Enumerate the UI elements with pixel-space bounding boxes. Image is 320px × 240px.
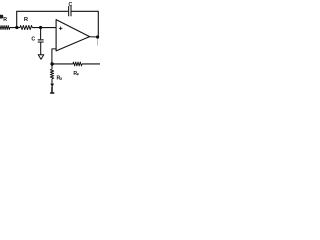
op-amp U1 bbox=[56, 20, 90, 51]
resistor RG bbox=[50, 69, 53, 79]
wire input resistor to node A bbox=[10, 27, 20, 29]
resistor R (input, clipped at left edge) bbox=[0, 26, 10, 30]
wire resistor RF to right edge bbox=[82, 63, 100, 65]
wire capacitor C to ground bbox=[40, 43, 42, 55]
ground arrowhead (filled) bbox=[50, 84, 54, 87]
svg-text:R: R bbox=[3, 17, 7, 23]
ground (open triangle, under C) bbox=[38, 55, 44, 60]
svg-text:R: R bbox=[24, 17, 29, 23]
wire output node down (faint stub) bbox=[97, 38, 99, 45]
resistor R (second) bbox=[20, 25, 32, 29]
capacitor C (feedback, top) bbox=[69, 6, 71, 16]
wire capacitor C to right rail down to output node bbox=[71, 11, 98, 37]
label: clipped glyph at left edge bbox=[0, 15, 3, 19]
wire resistor RG to ground arrow bbox=[51, 79, 53, 84]
wire node B to op-amp + input bbox=[32, 27, 56, 29]
svg-text:G: G bbox=[60, 77, 63, 81]
capacitor C (shunt, left) bbox=[38, 39, 44, 41]
svg-text:C: C bbox=[69, 2, 73, 8]
wire node C to resistor RF bbox=[52, 63, 73, 65]
op-amp + sign bbox=[59, 27, 63, 31]
output node junction dot bbox=[96, 35, 99, 38]
svg-text:F: F bbox=[77, 73, 79, 77]
node B junction dot bbox=[39, 26, 42, 29]
wire node C down to resistor RG bbox=[51, 64, 53, 69]
wire node A up and top rail to capacitor C bbox=[17, 11, 68, 27]
resistor RF bbox=[73, 62, 82, 66]
wire op-amp - input down to node C bbox=[52, 49, 56, 64]
ground arrow stem and bar bbox=[50, 87, 54, 94]
wire node B down to capacitor C bbox=[40, 28, 42, 40]
wire op-amp output to output node bbox=[90, 36, 99, 38]
node C junction dot bbox=[50, 62, 53, 65]
node A junction dot bbox=[15, 26, 18, 29]
svg-text:C: C bbox=[31, 36, 35, 42]
